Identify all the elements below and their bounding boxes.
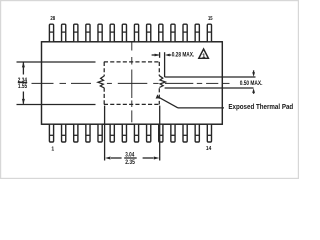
- svg-text:14: 14: [206, 146, 212, 152]
- svg-text:Exposed Thermal Pad: Exposed Thermal Pad: [228, 102, 293, 111]
- svg-text:15: 15: [208, 16, 213, 22]
- svg-text:0.50 MAX.: 0.50 MAX.: [240, 81, 263, 87]
- svg-text:1.55: 1.55: [18, 84, 28, 90]
- svg-text:1: 1: [51, 146, 54, 152]
- svg-text:2.34: 2.34: [18, 78, 28, 84]
- svg-text:3.04: 3.04: [125, 153, 135, 159]
- svg-text:2.35: 2.35: [125, 160, 135, 166]
- svg-text:0.28 MAX.: 0.28 MAX.: [172, 53, 195, 59]
- svg-text:28: 28: [50, 16, 55, 22]
